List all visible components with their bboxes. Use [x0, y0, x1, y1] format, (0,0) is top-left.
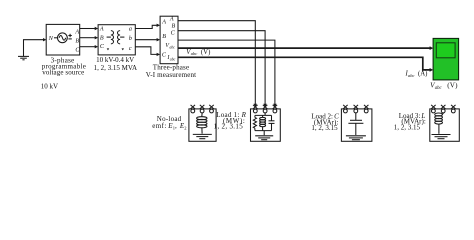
no-load inner ground [193, 134, 212, 138]
svg-text:(V): (V) [201, 49, 210, 56]
svg-text:(V): (V) [447, 81, 458, 89]
Load2 text [311, 113, 339, 132]
no-load inner impedance coil [197, 113, 207, 134]
svg-text:(A): (A) [418, 70, 427, 77]
wire Vabc to scope port1 (thick) [178, 46, 433, 50]
svg-text:abc: abc [170, 58, 176, 62]
wire transformer b to VI B [135, 38, 160, 41]
Load1 inner ground [255, 131, 273, 140]
Load1 ports [253, 105, 277, 113]
label under VI block [146, 63, 197, 79]
svg-text:2: 2 [184, 126, 186, 131]
Load3 text [394, 112, 426, 132]
Load2 inner capacitor [348, 113, 363, 135]
svg-text:N: N [48, 35, 54, 42]
Load2 inner ground [346, 136, 366, 140]
svg-text:A: A [99, 26, 104, 32]
transformer T1 10kV-0.4kV [98, 25, 135, 55]
wire VI out A down to Load1 port1 [178, 21, 257, 108]
svg-text:c: c [129, 46, 132, 52]
svg-text:1, 2, 3.15 MVA: 1, 2, 3.15 MVA [94, 64, 137, 72]
svg-text:B: B [75, 39, 79, 45]
svg-text:abc: abc [408, 73, 415, 78]
svg-text:1, 2, 3.15: 1, 2, 3.15 [214, 123, 244, 131]
svg-text:10 kV: 10 kV [41, 83, 58, 91]
svg-text:B: B [162, 34, 166, 40]
svg-text:V-I measurement: V-I measurement [146, 71, 197, 79]
label under transformer [94, 56, 137, 72]
svg-text:voltage source: voltage source [42, 69, 84, 77]
wire source A to transformer A [80, 27, 98, 30]
Load3 ports [431, 105, 455, 113]
node label Vabc (V) [186, 49, 210, 56]
label under source [42, 57, 86, 77]
no-load text [152, 115, 186, 131]
three-phase V-I measurement block U1 [160, 16, 178, 64]
Load3 inner ground [432, 135, 451, 139]
svg-text:A: A [74, 29, 79, 35]
Load 3 block (L) [430, 109, 460, 141]
Load 1 block (parallel R) [251, 109, 281, 141]
wire VI out B down to Load1 port2 [178, 31, 267, 108]
svg-text:B: B [100, 35, 104, 41]
wire transformer a to VI A [135, 24, 160, 29]
Load1 text [214, 111, 247, 130]
svg-text:b: b [129, 36, 132, 42]
3-phase programmable voltage source V1 [46, 24, 80, 55]
scope block [433, 38, 459, 80]
scope label Vabc (V) [430, 81, 458, 91]
Load1 inner parallel RLC [253, 113, 274, 131]
svg-text:emf:: emf: [152, 122, 167, 130]
wire source B to transformer B [80, 36, 98, 39]
Load2 ports [343, 105, 368, 113]
svg-text:a: a [129, 26, 132, 32]
svg-text:B: B [172, 23, 176, 29]
svg-text:1, 2, 3.15: 1, 2, 3.15 [311, 124, 338, 132]
svg-text:abc: abc [191, 51, 198, 56]
svg-text:A: A [169, 17, 174, 23]
wire transformer c to VI C [135, 47, 160, 56]
svg-text:1, 2, 3.15: 1, 2, 3.15 [394, 124, 421, 132]
Load3 inner inductor [435, 113, 444, 134]
wire source C to transformer C [80, 45, 98, 48]
node label Iabc (A) [405, 70, 428, 77]
ground [18, 38, 46, 60]
svg-text:A: A [161, 19, 166, 25]
svg-text:abc: abc [435, 86, 443, 91]
wire VI out C down to Load1 port3 [178, 40, 277, 107]
no-load emf block [189, 109, 216, 141]
wire Iabc to scope port2 (thick) [178, 57, 433, 72]
svg-text:abc: abc [170, 46, 176, 50]
svg-text:,: , [175, 122, 177, 130]
no-load ports [191, 105, 214, 113]
Load 2 block (C) [341, 109, 372, 141]
